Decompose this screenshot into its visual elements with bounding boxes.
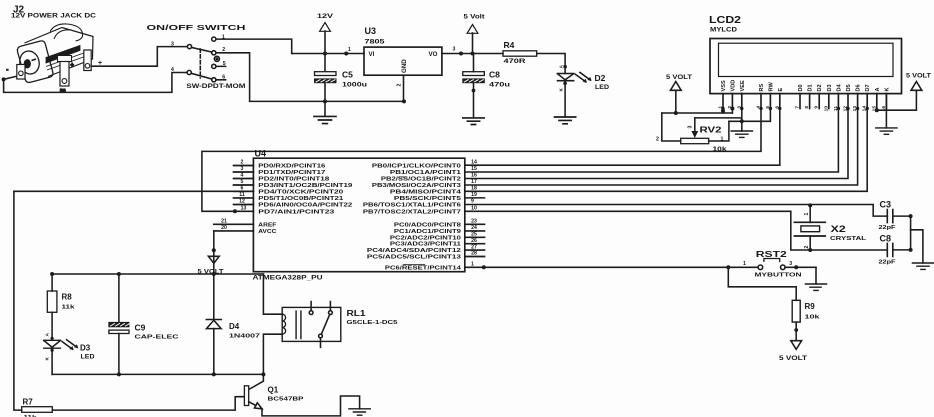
- svg-text:PC1/ADC1/PCINT9: PC1/ADC1/PCINT9: [394, 229, 462, 235]
- svg-text:12V POWER JACK DC: 12V POWER JACK DC: [11, 14, 97, 20]
- svg-text:D2: D2: [817, 84, 823, 91]
- svg-text:BC547BP: BC547BP: [268, 397, 304, 403]
- svg-text:+: +: [98, 60, 102, 67]
- svg-text:RL1: RL1: [347, 309, 367, 318]
- svg-text:VI: VI: [369, 51, 375, 58]
- svg-text:23: 23: [471, 219, 477, 225]
- svg-text:14: 14: [471, 160, 477, 166]
- svg-text:PB7/TOSC2/XTAL2/PCINT7: PB7/TOSC2/XTAL2/PCINT7: [363, 209, 462, 215]
- svg-text:21: 21: [221, 219, 227, 225]
- svg-text:C8: C8: [489, 70, 500, 80]
- svg-text:G5CLE-1-DC5: G5CLE-1-DC5: [347, 320, 398, 326]
- svg-text:PD7/AIN1/PCINT23: PD7/AIN1/PCINT23: [258, 209, 335, 215]
- svg-text:D1: D1: [808, 84, 814, 91]
- svg-text:PB6/TOSC1/XTAL1/PCINT6: PB6/TOSC1/XTAL1/PCINT6: [363, 203, 462, 209]
- svg-text:D2: D2: [595, 73, 606, 83]
- svg-text:8: 8: [804, 106, 810, 109]
- svg-text:2: 2: [241, 160, 244, 166]
- svg-text:K: K: [45, 357, 51, 361]
- svg-text:LCD2: LCD2: [709, 15, 742, 26]
- svg-text:PC4/ADC4/SDA/PCINT12: PC4/ADC4/SDA/PCINT12: [367, 248, 462, 254]
- svg-text:16: 16: [881, 106, 887, 112]
- svg-text:D4: D4: [836, 83, 842, 91]
- svg-text:5: 5: [223, 61, 226, 67]
- svg-text:ON/OFF SWITCH: ON/OFF SWITCH: [147, 23, 246, 32]
- svg-text:+: +: [71, 63, 74, 69]
- svg-text:R9: R9: [805, 302, 816, 311]
- svg-text:28: 28: [471, 251, 477, 257]
- svg-text:CRYSTAL: CRYSTAL: [830, 236, 867, 242]
- svg-text:25: 25: [471, 232, 477, 238]
- svg-text:RST2: RST2: [756, 250, 788, 259]
- svg-text:6: 6: [222, 74, 225, 80]
- svg-text:X2: X2: [831, 224, 846, 234]
- svg-text:10k: 10k: [713, 147, 728, 153]
- svg-text:470u: 470u: [489, 83, 510, 89]
- svg-text:PC6/RESET/PCINT14: PC6/RESET/PCINT14: [385, 265, 462, 271]
- svg-text:11: 11: [239, 192, 245, 198]
- svg-text:GND: GND: [401, 59, 408, 73]
- svg-text:K: K: [884, 87, 890, 91]
- svg-text:2: 2: [656, 137, 659, 143]
- svg-text:AREF: AREF: [258, 222, 276, 228]
- svg-text:19: 19: [471, 192, 477, 198]
- svg-text:C9: C9: [135, 323, 146, 333]
- svg-text:1: 1: [804, 213, 810, 216]
- svg-text:A: A: [558, 65, 564, 69]
- svg-text:17: 17: [471, 179, 477, 185]
- svg-text:9: 9: [471, 199, 474, 205]
- svg-text:5 VOLT: 5 VOLT: [666, 75, 692, 81]
- svg-text:3: 3: [789, 261, 792, 267]
- svg-text:1N4007: 1N4007: [229, 334, 260, 340]
- svg-text:10: 10: [823, 106, 829, 112]
- svg-text:1: 1: [348, 47, 351, 53]
- svg-text:AVCC: AVCC: [258, 229, 277, 235]
- svg-text:D7: D7: [865, 84, 871, 91]
- svg-text:5 VOLT: 5 VOLT: [906, 74, 931, 80]
- svg-text:CAP-ELEC: CAP-ELEC: [135, 335, 180, 341]
- svg-text:10: 10: [471, 206, 477, 212]
- svg-text:12V: 12V: [317, 14, 333, 20]
- svg-text:4: 4: [241, 173, 244, 179]
- svg-text:PD3/INT1/OC2B/PCINT19: PD3/INT1/OC2B/PCINT19: [258, 183, 353, 189]
- svg-text:PD0/RXD/PCINT16: PD0/RXD/PCINT16: [258, 164, 326, 170]
- svg-text:VSS: VSS: [721, 80, 727, 91]
- svg-text:C3: C3: [880, 200, 892, 210]
- svg-text:5 VOLT: 5 VOLT: [779, 355, 807, 362]
- svg-text:C8: C8: [880, 234, 892, 244]
- svg-text:3: 3: [241, 166, 244, 172]
- svg-text:3: 3: [453, 47, 456, 53]
- svg-text:1: 1: [222, 34, 225, 40]
- svg-text:D4: D4: [229, 322, 240, 331]
- svg-text:D5: D5: [846, 84, 852, 91]
- svg-text:24: 24: [471, 225, 477, 231]
- svg-text:PC0/ADC0/PCINT8: PC0/ADC0/PCINT8: [394, 222, 462, 228]
- svg-text:PD5/T1/OC0B/PCINT21: PD5/T1/OC0B/PCINT21: [258, 196, 344, 202]
- svg-text:MYLCD: MYLCD: [710, 28, 738, 34]
- svg-text:VEE: VEE: [740, 80, 746, 91]
- svg-text:26: 26: [471, 238, 477, 244]
- svg-text:LED: LED: [81, 355, 96, 361]
- svg-text:D0: D0: [798, 84, 804, 91]
- svg-text:5 Volt: 5 Volt: [464, 15, 485, 21]
- svg-text:RS: RS: [759, 83, 765, 91]
- svg-text:C5: C5: [342, 70, 353, 80]
- svg-text:470R: 470R: [504, 59, 527, 65]
- svg-text:27: 27: [471, 244, 477, 250]
- svg-text:R8: R8: [62, 293, 73, 302]
- svg-text:Q1: Q1: [268, 386, 279, 395]
- svg-text:D3: D3: [827, 84, 833, 91]
- svg-text:PC2/ADC2/PCINT10: PC2/ADC2/PCINT10: [390, 235, 462, 241]
- svg-text:1: 1: [721, 137, 724, 143]
- svg-text:1000u: 1000u: [342, 83, 367, 89]
- svg-text:7805: 7805: [365, 40, 386, 46]
- svg-text:PD1/TXD/PCINT17: PD1/TXD/PCINT17: [258, 170, 326, 176]
- svg-text:-: -: [7, 67, 9, 73]
- svg-text:12: 12: [239, 199, 245, 205]
- svg-text:7: 7: [795, 106, 801, 109]
- svg-text:3: 3: [688, 126, 694, 129]
- svg-text:11k: 11k: [62, 305, 76, 311]
- svg-text:PB2/SS/OC1B/PCINT2: PB2/SS/OC1B/PCINT2: [381, 177, 462, 183]
- svg-text:P3: P3: [60, 88, 66, 93]
- svg-text:13: 13: [241, 206, 247, 212]
- svg-text:D6: D6: [856, 84, 862, 91]
- svg-text:10k: 10k: [805, 315, 822, 321]
- svg-text:VDD: VDD: [730, 80, 736, 92]
- svg-text:16: 16: [471, 173, 477, 179]
- svg-text:2: 2: [804, 246, 810, 249]
- svg-text:PB1/OC1A/PCINT1: PB1/OC1A/PCINT1: [390, 170, 462, 176]
- svg-text:5: 5: [241, 179, 244, 185]
- svg-text:PC5/ADC5/SCL/PCINT13: PC5/ADC5/SCL/PCINT13: [367, 255, 462, 261]
- svg-text:4: 4: [171, 67, 174, 73]
- svg-text:K: K: [558, 88, 564, 92]
- svg-text:22pF: 22pF: [879, 225, 897, 231]
- svg-text:SW-DPDT-MOM: SW-DPDT-MOM: [186, 83, 245, 90]
- svg-text:22pF: 22pF: [879, 260, 897, 266]
- svg-text:PB0/ICP1/CLKO/PCINT0: PB0/ICP1/CLKO/PCINT0: [372, 164, 462, 170]
- svg-text:3: 3: [171, 42, 174, 48]
- svg-text:A: A: [45, 333, 51, 337]
- svg-text:15: 15: [471, 166, 477, 172]
- svg-text:E: E: [778, 88, 784, 92]
- svg-text:18: 18: [471, 186, 477, 192]
- svg-text:PD4/T0/XCK/PCINT20: PD4/T0/XCK/PCINT20: [258, 189, 344, 195]
- svg-text:RV2: RV2: [700, 125, 722, 135]
- svg-text:R7: R7: [23, 398, 34, 407]
- svg-text:1: 1: [471, 262, 474, 268]
- svg-text:LED: LED: [595, 85, 610, 91]
- svg-text:PD2/INT0/PCINT18: PD2/INT0/PCINT18: [258, 177, 330, 183]
- svg-text:PB4/MISO/PCINT4: PB4/MISO/PCINT4: [390, 189, 462, 195]
- svg-text:PD6/AIN0/OC0A/PCINT22: PD6/AIN0/OC0A/PCINT22: [258, 203, 353, 209]
- svg-text:1: 1: [743, 261, 746, 267]
- svg-text:VO: VO: [429, 51, 438, 58]
- svg-text:PB5/SCK/PCINT5: PB5/SCK/PCINT5: [394, 196, 462, 202]
- svg-text:D3: D3: [80, 344, 91, 353]
- svg-text:A: A: [875, 87, 881, 91]
- svg-text:PC3/ADC3/PCINT11: PC3/ADC3/PCINT11: [390, 242, 462, 248]
- svg-text:U3: U3: [365, 26, 377, 36]
- svg-text:20: 20: [221, 225, 227, 231]
- svg-text:U4: U4: [255, 149, 267, 159]
- svg-text:2: 2: [397, 84, 403, 87]
- svg-text:PB3/MOSI/OC2A/PCINT3: PB3/MOSI/OC2A/PCINT3: [372, 183, 462, 189]
- svg-text:R4: R4: [504, 40, 515, 50]
- svg-text:2: 2: [222, 47, 225, 53]
- svg-text:9: 9: [814, 106, 820, 109]
- svg-text:RW: RW: [768, 82, 774, 92]
- svg-text:MYBUTTON: MYBUTTON: [755, 272, 802, 278]
